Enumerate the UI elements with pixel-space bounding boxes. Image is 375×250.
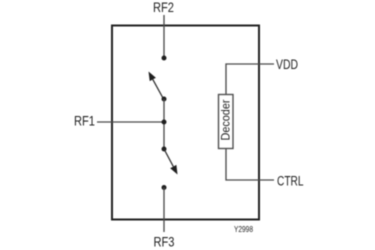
switch blade arrow to RF2 <box>149 72 164 100</box>
wire VDD net <box>226 64 274 94</box>
IC outline box <box>112 26 259 220</box>
wire RF1 pin <box>97 121 164 123</box>
node blade pivot upper <box>162 97 167 102</box>
wire CTRL net <box>226 149 274 181</box>
svg-text:RF3: RF3 <box>154 235 175 250</box>
svg-text:RF1: RF1 <box>74 114 95 129</box>
node blade pivot lower <box>162 147 167 152</box>
node RF1 pole junction <box>162 120 167 125</box>
node RF2 throw contact <box>162 56 167 61</box>
node RF3 throw contact <box>162 185 167 190</box>
switch blade arrow to RF3 <box>164 149 178 175</box>
wire RF2 pin <box>163 15 165 58</box>
svg-text:VDD: VDD <box>276 57 298 72</box>
svg-text:RF2: RF2 <box>153 0 174 15</box>
wire switch pole <box>163 99 165 149</box>
svg-text:Y2998: Y2998 <box>234 224 253 234</box>
wire RF3 pin <box>163 188 165 233</box>
svg-text:CTRL: CTRL <box>277 174 304 189</box>
svg-text:Decoder: Decoder <box>219 99 233 140</box>
decoder block <box>219 95 234 149</box>
